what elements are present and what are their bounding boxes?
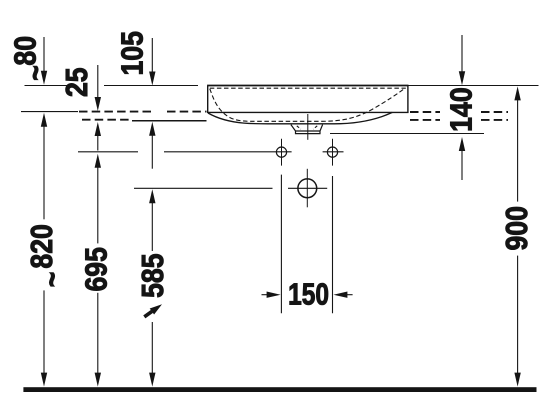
svg-text:25: 25 — [60, 67, 94, 97]
dimension 105 — [149, 38, 155, 169]
reference tick for 105 — [132, 120, 207, 122]
right fixing hole — [327, 147, 337, 157]
basin outer bowl curve — [208, 112, 392, 123]
svg-text:~: ~ — [35, 272, 69, 288]
dimension ~820 — [41, 113, 47, 387]
dimension 25 — [95, 65, 101, 151]
left fixing hole centerline — [281, 139, 283, 166]
drain outlet — [291, 125, 323, 134]
right fixing hole centerline — [332, 139, 334, 166]
basin top rim — [207, 85, 408, 87]
countertop top dashed line left — [79, 111, 207, 113]
rim level line left tick — [25, 85, 69, 87]
svg-text:150: 150 — [288, 277, 329, 311]
svg-text:900: 900 — [500, 206, 534, 250]
svg-text:695: 695 — [80, 247, 114, 291]
rim level line left segment — [104, 85, 198, 87]
basin right edge — [407, 86, 409, 114]
drain centerline — [307, 114, 309, 140]
basin inner bowl hidden curve — [210, 88, 405, 121]
dimension 900 — [514, 86, 520, 386]
countertop tick line solid — [21, 111, 78, 113]
svg-text:105: 105 — [116, 31, 150, 75]
svg-text:80: 80 — [9, 36, 43, 66]
dimension 140 — [459, 35, 465, 180]
countertop bottom dashed line right — [410, 119, 508, 121]
countertop bottom dashed line left — [82, 119, 131, 121]
reference line for 140 — [330, 133, 484, 135]
dimension ~80 — [41, 37, 47, 85]
basin left edge — [207, 86, 209, 114]
countertop top dashed line right — [410, 111, 508, 113]
svg-text:585: 585 — [136, 253, 170, 297]
label ~80 — [9, 36, 53, 81]
dimension 150 — [262, 175, 353, 314]
ground line — [23, 387, 536, 392]
basin bottom edge — [207, 111, 408, 113]
label ~820 — [25, 224, 70, 287]
fixing holes level line — [78, 151, 344, 153]
siphon hole centerline — [306, 169, 308, 208]
dimension 695 — [95, 154, 101, 387]
left fixing hole — [276, 147, 286, 157]
svg-text:820: 820 — [25, 224, 59, 268]
drain hidden edges — [297, 126, 317, 129]
dimension 585 — [149, 189, 155, 386]
siphon hole — [298, 179, 317, 198]
basin inner rim hidden line — [210, 87, 406, 89]
siphon level line — [134, 187, 327, 189]
svg-text:140: 140 — [445, 87, 479, 131]
svg-text:~: ~ — [19, 65, 53, 81]
rim level line right segment — [408, 85, 539, 87]
drain direction arrow — [144, 304, 162, 317]
